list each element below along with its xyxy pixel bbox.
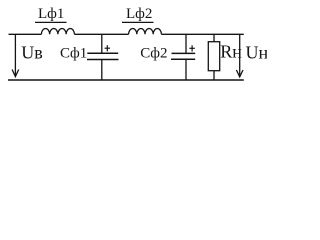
capacitor Cф1 (87, 34, 119, 80)
capacitor Cф2 (171, 34, 195, 80)
label Cф1 (60, 46, 87, 62)
resistor Rн (208, 34, 219, 80)
wire bottom bus (8, 79, 244, 81)
svg-text:Cф1: Cф1 (60, 46, 87, 62)
label Lф1 (35, 6, 67, 22)
label Rн (220, 42, 242, 62)
input voltage arrow Uв (12, 34, 19, 76)
output voltage arrow Uн (236, 35, 243, 77)
wire top bus left segment (9, 33, 42, 35)
polarity plus of Cф1 (105, 45, 110, 51)
inductor Lф1 (41, 28, 74, 34)
polarity plus of Cф2 (189, 45, 194, 51)
inductor Lф2 (129, 28, 162, 34)
svg-text:Lф1: Lф1 (38, 6, 64, 22)
label Uв (21, 43, 43, 63)
svg-text:Uн: Uн (246, 43, 268, 63)
wire top bus middle segment (74, 33, 128, 35)
svg-text:Cф2: Cф2 (140, 46, 167, 62)
svg-text:Uв: Uв (21, 43, 43, 63)
svg-text:Lф2: Lф2 (126, 6, 152, 22)
svg-text:Rн: Rн (220, 42, 242, 62)
label Cф2 (140, 46, 167, 62)
label Lф2 (122, 6, 154, 22)
label Uн (246, 43, 269, 63)
wire top bus right segment (161, 33, 243, 35)
